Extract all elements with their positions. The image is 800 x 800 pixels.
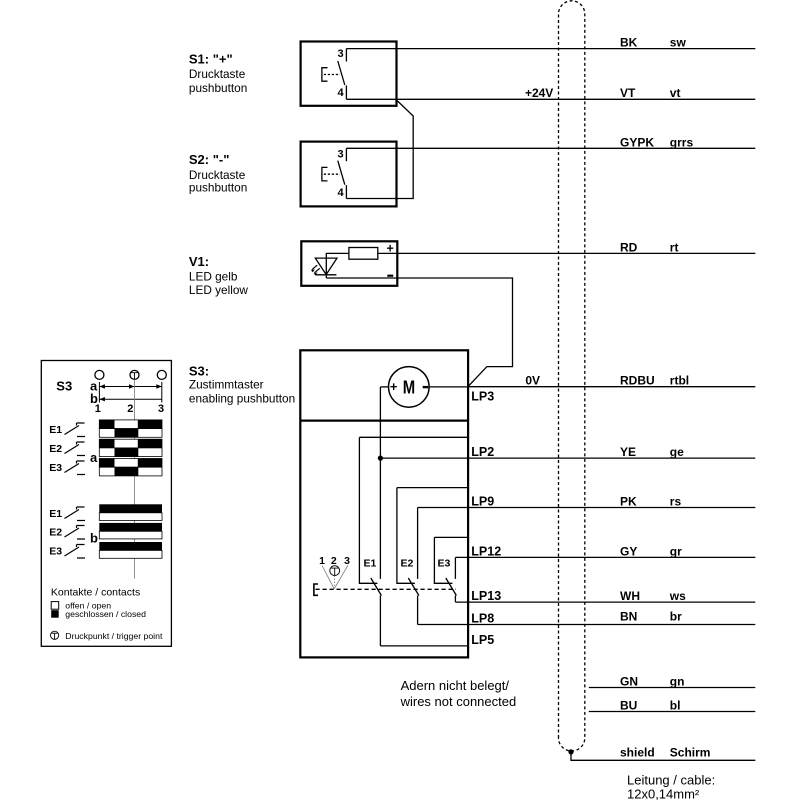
switch blade E2 <box>408 578 419 596</box>
wire GYPK from S2 pin 3 <box>346 147 755 149</box>
svg-text:4: 4 <box>338 187 345 199</box>
svg-text:rs: rs <box>670 495 682 509</box>
svg-text:b: b <box>90 530 98 545</box>
actuator dashed link S1 <box>324 74 340 76</box>
svg-text:geschlossen / closed: geschlossen / closed <box>65 609 146 619</box>
svg-text:BN: BN <box>620 610 637 624</box>
wire BU <box>589 711 756 713</box>
svg-text:gn: gn <box>670 675 685 689</box>
dimension ticks <box>99 382 161 403</box>
svg-text:BK: BK <box>620 35 638 49</box>
wire E2 lower to LP8 <box>417 596 419 625</box>
svg-text:LP5: LP5 <box>471 633 494 647</box>
panel bars b-E1 <box>99 504 162 520</box>
svg-text:LP2: LP2 <box>471 445 494 459</box>
svg-text:Leitung / cable:: Leitung / cable: <box>627 773 715 788</box>
svg-text:GY: GY <box>620 544 637 558</box>
panel glyph b-E1 <box>65 507 86 521</box>
svg-text:1: 1 <box>319 555 325 567</box>
svg-text:Zustimmtaster: Zustimmtaster <box>189 378 264 392</box>
trigger guide lines <box>322 565 348 589</box>
wire E2 left vertical with hook <box>397 488 415 584</box>
svg-text:2: 2 <box>331 555 337 567</box>
svg-text:3: 3 <box>338 149 344 161</box>
wire VT from S1 pin 4 <box>346 98 755 100</box>
svg-text:LP13: LP13 <box>471 589 501 603</box>
svg-text:rtbl: rtbl <box>670 374 689 388</box>
wire V1 minus to 0V node <box>326 278 512 386</box>
svg-text:0V: 0V <box>525 374 540 388</box>
pushbutton S2 box <box>301 142 397 207</box>
svg-text:sw: sw <box>670 35 687 49</box>
svg-text:ws: ws <box>669 589 686 603</box>
svg-text:bl: bl <box>670 699 681 713</box>
svg-text:Adern nicht belegt/: Adern nicht belegt/ <box>401 678 510 693</box>
wire E3 top <box>434 536 468 538</box>
panel glyph b-E3 <box>65 545 86 559</box>
panel position circle 1 <box>95 370 104 379</box>
switch blade S1 <box>338 61 345 85</box>
label S2 <box>189 152 247 195</box>
actuator bracket S2 <box>322 167 328 181</box>
svg-text:E2: E2 <box>49 443 62 455</box>
svg-text:M: M <box>403 377 415 397</box>
svg-text:grrs: grrs <box>670 135 694 149</box>
svg-text:wires not connected: wires not connected <box>400 694 517 709</box>
panel bars a-E3 <box>99 459 162 476</box>
dimension b <box>90 391 162 406</box>
svg-text:RDBU: RDBU <box>620 374 655 388</box>
wire motor left <box>380 386 388 388</box>
svg-text:LP8: LP8 <box>471 611 494 625</box>
wire E2 right vertical upper <box>417 508 419 579</box>
wire 0V RDBU <box>468 386 755 388</box>
panel position circle 3 <box>157 370 166 379</box>
wire shield <box>571 752 755 760</box>
svg-text:Kontakte / contacts: Kontakte / contacts <box>51 587 140 599</box>
junction dot LP2 node <box>378 456 383 461</box>
wire LP13 WH <box>455 601 755 603</box>
svg-text:LP3: LP3 <box>471 390 494 404</box>
panel center line <box>134 379 136 578</box>
wire resistor left to LED <box>326 253 349 278</box>
svg-text:gr: gr <box>670 544 682 558</box>
svg-text:E1: E1 <box>49 508 62 520</box>
wire E1 left vertical with hook <box>359 437 377 583</box>
svg-text:3: 3 <box>338 48 344 60</box>
svg-text:V1:: V1: <box>189 254 209 269</box>
svg-text:ge: ge <box>670 445 684 459</box>
actuator bracket S1 <box>322 68 328 82</box>
enabling pushbutton S3 box <box>300 350 468 657</box>
switch blade S2 <box>338 161 345 185</box>
wire E3 right vertical upper <box>454 557 456 579</box>
svg-text:LP12: LP12 <box>471 544 501 558</box>
wire E3 left vertical with hook <box>434 537 452 583</box>
svg-text:Schirm: Schirm <box>670 746 711 760</box>
svg-text:3: 3 <box>344 555 350 567</box>
pin 3 stub S2 <box>345 148 347 161</box>
svg-text:GN: GN <box>620 675 638 689</box>
pin 3 stub S1 <box>345 49 347 62</box>
LED diode V1 <box>315 258 337 275</box>
wire LP12 GY <box>455 556 755 558</box>
wire RD from V1 <box>378 252 756 254</box>
switch blade E1 <box>371 578 382 596</box>
panel glyph b-E2 <box>65 526 86 540</box>
label S3 <box>189 363 295 405</box>
svg-text:LED gelb: LED gelb <box>189 270 238 284</box>
panel glyph a-E2 <box>65 442 86 456</box>
panel numbers 1 2 3 <box>95 403 164 415</box>
svg-text:LP9: LP9 <box>471 495 494 509</box>
actuator dashed link S2 <box>324 173 340 175</box>
svg-text:2: 2 <box>127 403 133 415</box>
wire E2 top <box>397 487 468 489</box>
svg-text:E2: E2 <box>49 527 62 539</box>
svg-text:1: 1 <box>95 403 101 415</box>
caption cable type <box>627 773 715 800</box>
panel glyph a-E1 <box>65 423 86 437</box>
wire motor vertical upper <box>379 387 381 579</box>
S3 contact panel box <box>41 361 171 647</box>
wire motor right to LP3 <box>429 386 468 388</box>
svg-text:pushbutton: pushbutton <box>189 81 247 95</box>
legend open box <box>51 602 59 610</box>
svg-text:4: 4 <box>338 87 345 99</box>
motor M circle <box>389 367 430 408</box>
minus mark V1 <box>387 275 393 277</box>
label S1 <box>189 51 247 95</box>
wire LP5 <box>380 645 468 647</box>
svg-text:S3:: S3: <box>189 363 209 378</box>
svg-text:Drucktaste: Drucktaste <box>189 67 246 81</box>
LED cathode bar <box>315 274 336 276</box>
actuator dashed line S3 <box>316 588 457 590</box>
panel bars a-E1 <box>99 420 162 437</box>
panel bars b-E2 <box>99 523 162 539</box>
pin 4 stub S2 <box>345 185 347 198</box>
svg-text:PK: PK <box>620 495 637 509</box>
svg-text:RD: RD <box>620 240 638 254</box>
svg-text:E1: E1 <box>364 558 377 570</box>
trigger point symbol S3 <box>330 566 340 576</box>
wire BK from S1 pin 3 <box>346 48 755 50</box>
svg-text:pushbutton: pushbutton <box>189 181 247 195</box>
svg-text:+24V: +24V <box>525 86 553 100</box>
panel glyph a-E3 <box>65 461 86 475</box>
svg-text:Druckpunkt / trigger point: Druckpunkt / trigger point <box>65 631 163 641</box>
wire E1 lower to LP5 <box>379 596 381 646</box>
wire LP8 BN <box>418 624 756 626</box>
svg-text:E3: E3 <box>438 558 451 570</box>
wire GN <box>589 687 756 689</box>
svg-text:WH: WH <box>620 589 640 603</box>
panel trigger circle 2 <box>130 370 139 379</box>
svg-text:E2: E2 <box>401 558 414 570</box>
LED V1 box <box>301 241 397 285</box>
S3 divider line <box>300 420 468 422</box>
svg-text:BU: BU <box>620 699 637 713</box>
svg-text:shield: shield <box>620 746 655 760</box>
panel bars a-E2 <box>99 439 162 456</box>
LED arrows <box>311 265 320 275</box>
svg-text:E3: E3 <box>49 462 62 474</box>
actuator bracket E S3 <box>314 584 318 595</box>
label V1 <box>189 254 248 297</box>
svg-text:a: a <box>90 450 98 465</box>
pushbutton S1 box <box>301 42 397 106</box>
svg-text:vt: vt <box>670 86 681 100</box>
resistor in V1 <box>349 248 378 260</box>
svg-text:E3: E3 <box>49 546 62 558</box>
wire E1 top <box>359 436 468 438</box>
svg-text:VT: VT <box>620 86 636 100</box>
wire LP9 PK <box>418 507 756 509</box>
svg-text:S2: "-": S2: "-" <box>189 152 230 167</box>
legend closed box <box>51 610 59 618</box>
svg-text:S3: S3 <box>56 379 72 394</box>
svg-text:+: + <box>390 379 398 394</box>
svg-text:GYPK: GYPK <box>620 135 654 149</box>
svg-text:3: 3 <box>158 403 164 415</box>
svg-text:LED yellow: LED yellow <box>189 283 248 297</box>
svg-text:12x0,14mm²: 12x0,14mm² <box>627 787 700 800</box>
shield node dot <box>568 749 573 754</box>
svg-text:YE: YE <box>620 445 636 459</box>
wire E3 lower to LP13 <box>454 596 456 603</box>
pin 4 stub S1 <box>345 85 347 99</box>
svg-text:rt: rt <box>670 240 679 254</box>
svg-text:br: br <box>670 610 682 624</box>
wire LP2 YE <box>380 457 755 459</box>
legend trigger symbol <box>51 631 59 639</box>
switch blade E3 <box>446 578 457 596</box>
cable sheath dashed oval <box>559 1 585 751</box>
panel bars b-E3 <box>99 542 162 558</box>
svg-text:enabling pushbutton: enabling pushbutton <box>189 392 295 406</box>
motor minus mark <box>423 386 429 388</box>
dimension a <box>90 379 162 394</box>
svg-text:E1: E1 <box>49 424 62 436</box>
wire S1 to S2 pin 4 link <box>346 100 413 199</box>
note wires not connected <box>400 678 517 709</box>
svg-text:S1: "+": S1: "+" <box>189 51 233 66</box>
